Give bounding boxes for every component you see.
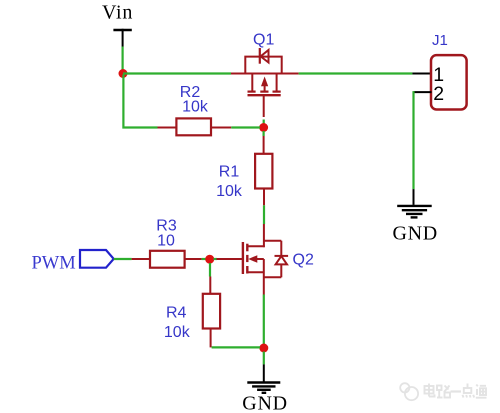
svg-text:R4: R4 (166, 305, 187, 322)
svg-text:Q1: Q1 (253, 32, 274, 49)
svg-text:Q2: Q2 (293, 252, 314, 269)
svg-text:J1: J1 (432, 32, 448, 49)
svg-text:10k: 10k (182, 99, 209, 116)
svg-text:GND: GND (242, 392, 287, 413)
svg-text:2: 2 (433, 83, 444, 105)
svg-text:10k: 10k (216, 183, 243, 200)
svg-text:Vin: Vin (102, 2, 133, 24)
svg-text:PWM: PWM (32, 254, 76, 274)
svg-text:10: 10 (157, 233, 175, 250)
svg-text:GND: GND (393, 223, 438, 245)
svg-text:R1: R1 (219, 164, 240, 181)
svg-text:10k: 10k (164, 324, 191, 341)
